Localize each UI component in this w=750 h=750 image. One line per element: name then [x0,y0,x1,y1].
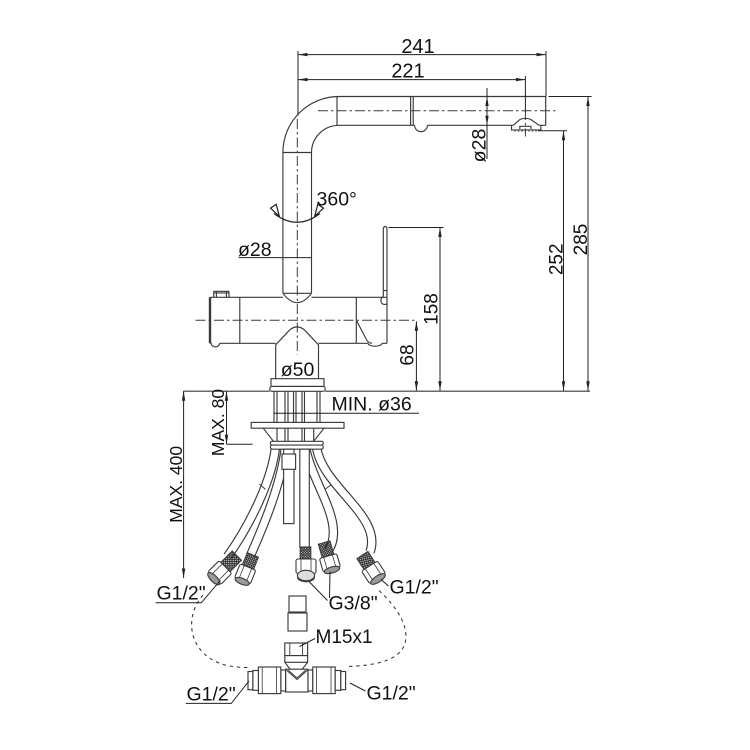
svg-text:M15x1: M15x1 [316,627,373,648]
arrows 241 [298,53,308,56]
adapter collar 2 [288,613,307,631]
dim 241 line [298,51,546,116]
dim 285 line [549,97,592,391]
body diverter diagonal [357,321,372,343]
spout tube bottom edge [339,124,546,126]
svg-text:MAX. 80: MAX. 80 [208,389,228,456]
lever hook [381,297,387,305]
tee big ring right [313,667,335,694]
body left cap [209,297,211,343]
svg-text:241: 241 [401,36,434,58]
hoses [228,447,372,557]
center hose [300,449,310,547]
hose second right [306,447,334,551]
arrows 221 [298,78,308,81]
spray head plate [512,125,541,130]
deck line [183,390,590,392]
dim 252 line [538,131,567,391]
body right cap [386,297,388,343]
svg-text:252: 252 [547,243,568,275]
dim 158 line [389,228,444,391]
mounting nut bar 1 [270,441,323,445]
adapter collar 1 [289,596,306,612]
adapter column and tee [248,596,346,694]
M15 nipple [285,643,308,656]
column saddle arc [283,293,312,302]
tee funnel V [287,670,308,679]
spout end cap [545,97,547,126]
svg-text:G1/2": G1/2" [157,583,206,605]
lever top cap [383,227,387,229]
lever tick [383,290,387,292]
tee thin ring right [308,670,313,691]
svg-text:G3/8": G3/8" [329,593,378,615]
spray head notch [520,126,531,129]
arrows 68 [415,321,418,331]
dim o28 column underline [239,257,312,259]
spout tube top edge [339,96,546,98]
spout joint at elbow [336,97,338,126]
tee small ring right [335,671,341,691]
hose second left [251,447,286,556]
body bottom edge [210,342,387,344]
fitting second left G1/2 [233,552,261,588]
svg-text:ø50: ø50 [281,359,315,381]
tee cap left [248,672,253,690]
svg-text:G1/2": G1/2" [367,683,416,705]
body joint left [239,297,241,343]
arrows MAX400 [182,391,185,401]
dim 68 line [415,321,417,390]
arrows 285 [586,97,589,107]
dashed hose loop right [349,591,406,667]
spray release button [415,125,428,131]
spout elbow joint line [283,152,312,154]
wire centerline spout horizontal [318,110,556,112]
shank tubes [274,391,320,422]
rigid pipe collar [282,454,296,469]
tee big ring left [258,667,280,694]
base ring upper [271,379,324,387]
mounting cone [263,428,324,441]
spout double joint [411,97,414,126]
base dome [276,327,319,379]
hose far left outer [228,447,276,557]
dim MIN o36 leader [274,412,420,414]
base ring lower [270,386,325,391]
arrows 158 [438,228,441,238]
spout elbow outer arc [283,96,339,152]
svg-text:MIN. ø36: MIN. ø36 [332,394,412,416]
spray nozzle ticks [515,130,536,132]
fittings [205,540,387,587]
fitting center G3/8 [296,547,316,582]
svg-text:360°: 360° [317,189,357,211]
svg-text:285: 285 [571,224,592,256]
svg-text:G1/2": G1/2" [390,577,439,599]
wire centerline spray head [524,112,526,138]
svg-text:G1/2": G1/2" [187,684,236,706]
spout elbow inner arc [312,125,340,152]
arrowheads [182,53,590,578]
spray head dome [513,118,539,125]
dashed hose loop left [192,595,248,668]
mounting nut bar 2 [270,445,323,449]
dim MAX400 line [183,391,185,578]
svg-text:MAX. 400: MAX. 400 [166,446,186,523]
svg-text:ø28: ø28 [238,239,272,261]
column saddle joint [283,292,312,294]
tee small ring left [253,671,259,691]
fitting far right G1/2 [354,550,387,587]
wire centerline column vertical [296,119,298,355]
column left edge [282,153,284,294]
rigid pipe [284,449,294,523]
svg-text:221: 221 [391,61,424,83]
tee thin ring left [281,670,286,691]
body bump left [211,343,219,347]
svg-text:158: 158 [422,293,443,325]
arrows MAX80 [225,391,228,401]
body joint right [355,297,357,343]
dim 221 line [298,76,525,112]
arrows 252 [562,131,565,141]
mounting washer [251,422,344,428]
svg-text:ø28: ø28 [469,129,491,163]
hose joint ticks [260,484,332,490]
body top button [214,291,229,297]
body bump right [368,343,382,346]
svg-text:68: 68 [398,344,419,365]
column right edge [311,153,313,294]
tee body [286,669,308,692]
body top edge [210,296,387,298]
hose far right [317,447,372,552]
dim o28 spout vertical line [486,88,488,159]
rotation arc 360 [271,204,324,222]
lever blade [383,228,387,297]
fitting second right G3/8 [315,540,341,575]
tee cap right [341,672,346,690]
dimensions [184,51,592,578]
fitting left G1/2 [205,549,243,587]
wire centerline body horizontal [196,319,417,321]
arrows o28 spout [485,97,488,107]
dim MAX80 line [227,391,253,444]
